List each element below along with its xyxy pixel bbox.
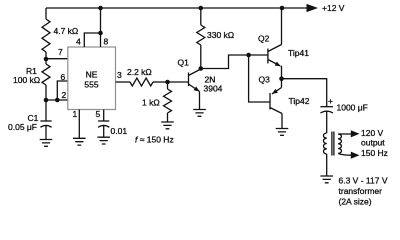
arrow secondary bottom [351,152,360,159]
transistor Q3 Tip42 [270,88,282,114]
svg-text:3: 3 [117,70,122,80]
svg-text:+: + [328,96,333,106]
wire Q3 collector to ground [281,114,283,129]
label C1 [28,113,39,123]
label R1 [26,66,37,76]
capacitor 1000 uF [320,107,333,113]
ground pin 1 [73,138,86,145]
svg-text:1000 μF: 1000 μF [337,103,368,113]
svg-text:2: 2 [62,90,67,100]
svg-text:7: 7 [58,47,63,57]
wire node B to C1 [45,100,47,121]
label Tip41 [288,48,309,58]
svg-text:transformer: transformer [339,186,383,196]
label output [361,138,385,148]
ground Q3 collector [276,129,289,136]
node pin6 tap junction [55,98,60,103]
wire C1 to ground [45,126,47,140]
transformer T1 secondary winding [338,134,341,153]
label 150 Hz [361,148,388,158]
label Q1 [178,58,190,68]
node A (pin7 / R1) [44,57,49,62]
svg-text:5: 5 [96,109,101,119]
ground C1 [40,140,53,147]
wire pin 1 to ground [78,110,80,139]
wire node D to Q2 base [201,55,268,69]
label 1 kOhm [142,98,160,108]
label 330 kOhm [207,30,234,40]
pin label 6 [61,72,66,82]
label transformer [339,186,383,196]
svg-text:3904: 3904 [204,84,223,94]
wire pin 7 [46,58,68,60]
node pin4/pin8 junction [98,31,103,36]
wire Q3 emitter to output node [281,79,283,88]
node E (Q2 base / Q3 base feed) [246,53,251,58]
wire secondary top lead [338,133,352,135]
svg-text:Q3: Q3 [259,75,271,85]
svg-text:Q2: Q2 [258,34,270,44]
pin label 3 [117,70,122,80]
pin label 2 [62,90,67,100]
transformer T1 primary winding [323,133,326,154]
resistor 2.2 kOhm [130,78,153,86]
svg-text:1: 1 [73,109,78,119]
label Q2 [258,34,270,44]
wire pin 6 tap [57,81,68,100]
wire secondary bottom lead [338,153,352,155]
wire Q1 emitter to ground [199,92,201,110]
wire +12V top rail [46,7,309,9]
transformer T1 core [332,132,334,156]
wire output node to 1000uF [282,79,327,107]
arrow secondary top [351,130,360,137]
wire 2.2k to node C [153,81,168,83]
label Q3 [259,75,271,85]
label 2.2 kOhm [127,67,152,77]
label 0.01 [111,126,128,136]
label 1000 uF [337,103,368,113]
node B (R1 / C1 / pin2) [44,98,49,103]
wire pin 8 / supply drop [100,8,102,47]
label 100 kOhm [13,75,40,85]
label +12 V [322,3,345,13]
transistor Q1 2N3904 [168,69,201,92]
label 6.3 V - 117 V [339,176,388,186]
capacitor C1 [40,121,51,127]
pin label 7 [58,47,63,57]
svg-text:+12 V: +12 V [322,3,345,13]
label 0.05 uF [8,122,37,132]
node top rail / Q2 collector junction [280,6,285,11]
svg-text:Tip42: Tip42 [289,96,310,106]
transistor Q2 Tip41 [268,45,282,67]
svg-text:330 kΩ: 330 kΩ [207,30,234,40]
svg-text:8: 8 [104,37,109,47]
label Tip42 [289,96,310,106]
svg-text:Tip41: Tip41 [288,48,309,58]
svg-text:(2A size): (2A size) [339,197,372,207]
node top rail / 330k junction [199,6,204,11]
wire top rail to 4.7k [45,8,47,19]
ground transformer primary [320,176,333,183]
ground 1 kOhm [161,122,174,129]
wire pin 5 to cap [103,110,105,122]
pin label 4 [76,37,81,47]
svg-text:150 Hz: 150 Hz [361,148,388,158]
svg-text:100 kΩ: 100 kΩ [13,75,40,85]
resistor R1 [42,59,50,85]
label 4.7 kOhm [54,26,79,36]
label + polarity [328,96,333,106]
svg-text:f ≈ 150 Hz: f ≈ 150 Hz [135,135,174,145]
wire 0.01 cap to ground [103,126,105,138]
resistor 4.7 kOhm [42,19,50,52]
wire node E to Q3 base [249,55,270,102]
svg-text:Q1: Q1 [178,58,190,68]
node F output (Q2/Q3 emitters) [279,76,284,81]
node D (Q1 collector / 330k) [199,66,204,71]
wire Q2 collector to top rail [281,8,283,45]
wire primary to ground [326,154,328,176]
wire pin 3 [116,81,131,83]
wire pin 2 [46,99,68,101]
wire pin 4 [84,33,100,47]
svg-text:0.01: 0.01 [111,126,128,136]
capacitor 0.01 [98,121,109,127]
resistor 1 kOhm [164,82,172,122]
pin label 5 [96,109,101,119]
svg-text:6: 6 [61,72,66,82]
svg-text:2.2 kΩ: 2.2 kΩ [127,67,152,77]
wire R1 to node B [45,85,47,100]
node top rail / pin8 junction [98,6,103,11]
svg-text:4: 4 [76,37,81,47]
op-amp/timer U1 NE555 body [68,47,116,110]
node C (2.2k / 1k / Q1 base) [165,80,170,85]
svg-text:120 V: 120 V [361,128,384,138]
svg-text:4.7 kΩ: 4.7 kΩ [54,26,79,36]
svg-text:0.05 μF: 0.05 μF [8,122,37,132]
pin label 8 [104,37,109,47]
ground 0.01 cap [97,137,110,144]
svg-text:555: 555 [84,80,98,90]
+12 V supply arrow [307,4,319,12]
label 2N 3904 [204,75,223,94]
svg-text:6.3 V - 117 V: 6.3 V - 117 V [339,176,388,186]
label f = 150 Hz [135,135,174,145]
ground Q1 emitter [193,110,206,117]
pin label 1 [73,109,78,119]
svg-text:output: output [361,138,385,148]
wire 1000uF to transformer primary [326,111,328,133]
wire 4.7k to node A [45,52,47,59]
svg-text:1 kΩ: 1 kΩ [142,98,160,108]
svg-text:NE: NE [86,70,98,80]
label (2A size) [339,197,372,207]
resistor 330 kOhm [197,8,205,69]
wire Q2 emitter to output node [280,66,283,79]
label 120 V [361,128,384,138]
